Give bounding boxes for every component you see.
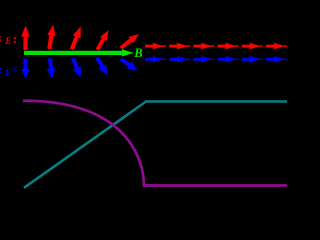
svg-text:<: < — [12, 65, 18, 76]
svg-text:s: s — [0, 30, 2, 45]
svg-text:E: E — [4, 36, 11, 46]
svg-text:s: s — [0, 62, 2, 77]
svg-text::: : — [13, 31, 17, 46]
svg-text:B: B — [133, 46, 142, 60]
svg-text:E: E — [4, 68, 11, 78]
